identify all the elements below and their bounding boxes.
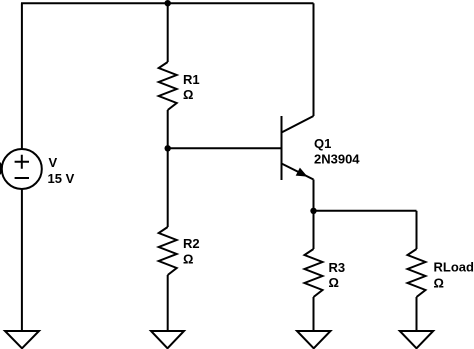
wire emitter node to RLoad branch (314, 210, 417, 212)
svg-text:RLoad: RLoad (434, 260, 474, 275)
resistor R3 (305, 249, 323, 297)
wire emitter to node (313, 180, 315, 211)
wire top rail to R1 (167, 3, 169, 62)
wire R3 to ground (313, 297, 315, 331)
wire collector to top rail (313, 3, 315, 116)
wire base (node to Q1 base) (168, 147, 282, 149)
transistor Q1 emitter diagonal (282, 164, 314, 180)
svg-text:Ω: Ω (434, 276, 444, 291)
transistor Q1 collector diagonal (282, 116, 314, 133)
resistor R1 (159, 62, 177, 110)
ground under R3 (297, 331, 331, 348)
svg-text:R1: R1 (183, 72, 200, 87)
wire R2 to ground (167, 275, 169, 331)
svg-text:15 V: 15 V (48, 171, 75, 186)
resistor R2 (159, 227, 177, 275)
ground under voltage source (5, 331, 39, 348)
transistor Q1 base bar (281, 116, 283, 180)
wire emitter node to R3 (313, 211, 315, 249)
node base junction dot (165, 145, 171, 151)
wire R1 to R2 (through base node) (167, 110, 169, 227)
svg-text:Q1: Q1 (314, 136, 331, 151)
svg-text:Ω: Ω (183, 87, 193, 102)
transistor Q1 emitter arrow (296, 168, 308, 177)
clipped terminal blob at left edge (0, 161, 3, 176)
wire left vertical (V+ to top rail) (21, 3, 23, 149)
voltage source V1 circle (2, 149, 42, 189)
svg-text:2N3904: 2N3904 (314, 152, 360, 167)
voltage source plus sign (15, 155, 29, 169)
ground under RLoad (400, 331, 433, 348)
svg-text:Ω: Ω (183, 252, 193, 267)
ground under R2 (151, 331, 184, 348)
resistor RLoad (408, 249, 426, 297)
wire RLoad branch vertical (416, 211, 418, 249)
wire top rail (21, 2, 314, 4)
wire voltage source to ground (21, 189, 23, 331)
wire RLoad to ground (416, 297, 418, 331)
node emitter junction dot (310, 208, 316, 214)
svg-text:V: V (49, 155, 58, 170)
voltage source minus sign (15, 177, 29, 179)
svg-text:Ω: Ω (329, 275, 339, 290)
svg-text:R3: R3 (329, 260, 346, 275)
node top junction dot (165, 0, 171, 6)
svg-text:R2: R2 (183, 236, 200, 251)
